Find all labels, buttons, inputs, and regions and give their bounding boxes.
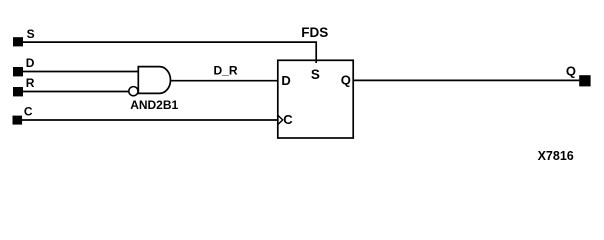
svg-text:D: D bbox=[281, 73, 290, 88]
svg-text:D_R: D_R bbox=[214, 63, 238, 77]
gate AND2B1 body bbox=[138, 67, 170, 94]
wire S: pin S to FDS top S pin bbox=[23, 42, 316, 63]
gate AND2B1 inverted-input bubble bbox=[129, 87, 138, 96]
svg-text:S: S bbox=[311, 67, 320, 82]
svg-text:S: S bbox=[27, 27, 35, 41]
svg-text:X7816: X7816 bbox=[538, 149, 574, 163]
input pin D bbox=[13, 67, 23, 76]
svg-text:R: R bbox=[26, 76, 35, 90]
flip-flop FDS body bbox=[278, 60, 353, 138]
wire Q: FDS Q output to output pin Q bbox=[353, 79, 579, 81]
clock triangle (FDS C input) bbox=[278, 115, 283, 124]
input pin C bbox=[13, 116, 23, 125]
wire D: pin D to AND2B1 top input bbox=[23, 71, 138, 73]
output pin Q bbox=[579, 75, 590, 86]
svg-text:AND2B1: AND2B1 bbox=[130, 98, 178, 112]
svg-text:FDS: FDS bbox=[301, 25, 328, 40]
input pin S bbox=[13, 37, 23, 46]
svg-text:D: D bbox=[26, 56, 35, 70]
wire C: pin C to FDS clock input bbox=[22, 119, 278, 121]
svg-text:C: C bbox=[24, 104, 33, 118]
input pin R bbox=[13, 87, 23, 96]
svg-text:C: C bbox=[283, 112, 293, 127]
wire D_R: gate output to FDS D input bbox=[170, 80, 277, 82]
svg-text:Q: Q bbox=[566, 64, 576, 79]
wire R: pin R to AND2B1 inverted input bubble bbox=[23, 91, 129, 93]
svg-text:Q: Q bbox=[341, 72, 351, 87]
